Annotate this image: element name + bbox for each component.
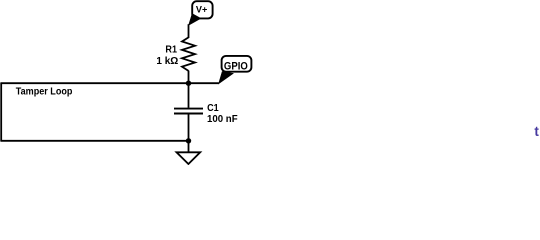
wire	[0, 82, 218, 84]
junction	[186, 81, 191, 86]
svg-text:t: t	[534, 124, 539, 139]
wire	[188, 83, 190, 108]
svg-text:R1: R1	[165, 45, 177, 56]
junction	[186, 138, 191, 143]
svg-text:V+: V+	[196, 4, 207, 14]
capacitor C1	[174, 109, 203, 114]
resistor R1	[182, 37, 195, 71]
wire	[188, 114, 190, 141]
wire	[188, 71, 190, 84]
wire	[188, 141, 190, 153]
net flag GPIO	[219, 56, 252, 84]
ground	[177, 152, 201, 164]
svg-text:GPIO: GPIO	[224, 60, 248, 72]
net flag V+	[189, 1, 213, 25]
wire	[188, 24, 190, 38]
tamper loop box	[0, 83, 188, 141]
svg-text:100 nF: 100 nF	[207, 114, 238, 125]
svg-text:1 kΩ: 1 kΩ	[156, 56, 178, 67]
svg-text:Tamper Loop: Tamper Loop	[16, 86, 73, 97]
svg-text:C1: C1	[207, 103, 219, 114]
